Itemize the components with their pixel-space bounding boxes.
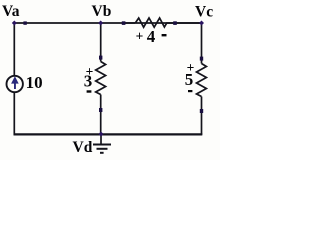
terminal dot bottom of resistor 5 bbox=[200, 109, 203, 113]
wire left lower (current source to bottom) bbox=[13, 92, 15, 135]
svg-text:+: + bbox=[136, 29, 144, 44]
terminal dot on top wire near Va bbox=[23, 21, 26, 24]
ground stub bbox=[100, 134, 102, 144]
current source I=10 (circle) bbox=[7, 76, 23, 92]
ground bar 2 bbox=[97, 148, 108, 150]
svg-text:Vd: Vd bbox=[73, 139, 93, 156]
current source arrow bbox=[11, 76, 19, 89]
svg-text:Vc: Vc bbox=[195, 4, 213, 21]
wire stub resistor4 to Vc bbox=[175, 22, 201, 24]
resistor 3 polarity label - bbox=[87, 90, 92, 92]
wire middle lower (R3 to bottom node) bbox=[100, 95, 102, 135]
node Vc dot bbox=[199, 21, 204, 26]
terminal dot top of resistor 5 bbox=[200, 57, 203, 61]
ground bar 3 bbox=[100, 152, 104, 154]
node Vb dot bbox=[98, 21, 103, 26]
svg-text:5: 5 bbox=[185, 70, 194, 89]
wire top Va-Vb-Vc bbox=[14, 22, 202, 24]
resistor 4 polarity label - bbox=[162, 34, 167, 36]
terminal dot left of resistor 4 bbox=[122, 21, 126, 25]
node Vd (ground junction) dot bbox=[99, 132, 104, 137]
svg-text:4: 4 bbox=[147, 27, 156, 46]
resistor 5 (right vertical) bbox=[197, 64, 207, 97]
ground bar 1 bbox=[93, 144, 111, 146]
svg-text:Vb: Vb bbox=[92, 3, 112, 20]
wire bottom bbox=[14, 133, 203, 135]
resistor 4 (horizontal, between Vb and Vc) bbox=[135, 18, 175, 27]
terminal dot bottom of resistor 3 bbox=[99, 108, 102, 112]
svg-text:Va: Va bbox=[2, 3, 20, 20]
resistor 3 (middle vertical) bbox=[96, 62, 106, 95]
wire left upper (Va to current source) bbox=[13, 23, 15, 76]
resistor 5 polarity label - bbox=[188, 90, 192, 92]
wire middle upper (Vb to R3) bbox=[100, 23, 102, 62]
node Va dot bbox=[12, 21, 17, 26]
svg-text:3: 3 bbox=[84, 72, 93, 91]
svg-text:10: 10 bbox=[26, 73, 43, 92]
terminal dot right of resistor 4 bbox=[173, 21, 177, 25]
terminal dot top of resistor 3 bbox=[99, 56, 102, 60]
wire right upper (Vc to R5) bbox=[201, 23, 203, 64]
wire stub Vb-dot to resistor4 bbox=[124, 22, 136, 24]
wire right lower (R5 to bottom) bbox=[201, 97, 203, 135]
